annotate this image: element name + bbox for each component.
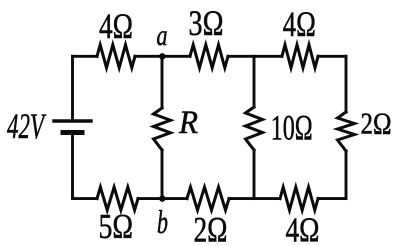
node b junction dot xyxy=(159,195,165,201)
wire top-left segment xyxy=(73,55,98,58)
wire right vertical upper xyxy=(345,56,348,112)
svg-text:R: R xyxy=(178,105,198,141)
wire top segment through middle junction xyxy=(228,55,282,58)
wire top-right to corner xyxy=(318,55,346,58)
svg-text:4Ω: 4Ω xyxy=(99,6,133,46)
svg-text:4Ω: 4Ω xyxy=(283,4,316,44)
svg-text:5Ω: 5Ω xyxy=(99,207,134,246)
svg-text:10Ω: 10Ω xyxy=(271,108,313,148)
svg-text:2Ω: 2Ω xyxy=(361,107,392,141)
resistor R vertical between a and b xyxy=(154,108,171,150)
wire left vertical above battery xyxy=(71,56,74,120)
svg-text:4Ω: 4Ω xyxy=(286,210,320,246)
resistor R7 10ohm vertical xyxy=(246,107,263,150)
wire middle branch upper xyxy=(253,56,256,107)
battery V1 positive plate xyxy=(54,119,91,122)
resistor R3 4ohm top-right xyxy=(282,45,318,68)
svg-text:42V: 42V xyxy=(7,106,47,146)
resistor R4 5ohm bottom-left xyxy=(97,187,138,210)
wire middle branch lower xyxy=(253,150,256,199)
resistor R2 3ohm top-middle xyxy=(190,45,228,68)
svg-text:3Ω: 3Ω xyxy=(189,3,224,43)
svg-text:b: b xyxy=(157,205,168,241)
svg-text:2Ω: 2Ω xyxy=(194,209,228,246)
wire top segment through node a xyxy=(135,55,190,58)
wire right vertical lower xyxy=(345,151,348,199)
wire bottom segment through middle junction xyxy=(229,197,280,200)
wire bottom-left segment xyxy=(73,197,98,200)
resistor R6 4ohm bottom-right xyxy=(280,187,318,210)
node a junction dot xyxy=(159,53,165,59)
wire left vertical below battery xyxy=(71,135,74,199)
battery V1 negative plate xyxy=(63,130,82,135)
wire bottom segment through node b xyxy=(138,197,187,200)
resistor R1 4ohm top-left xyxy=(97,45,135,68)
wire branch a to R xyxy=(161,56,164,108)
resistor R8 2ohm right vertical xyxy=(338,112,355,151)
wire bottom-right corner segment xyxy=(318,197,346,200)
wire R to node b xyxy=(161,150,164,199)
svg-text:a: a xyxy=(157,19,168,52)
resistor R5 2ohm bottom-middle xyxy=(187,187,229,210)
